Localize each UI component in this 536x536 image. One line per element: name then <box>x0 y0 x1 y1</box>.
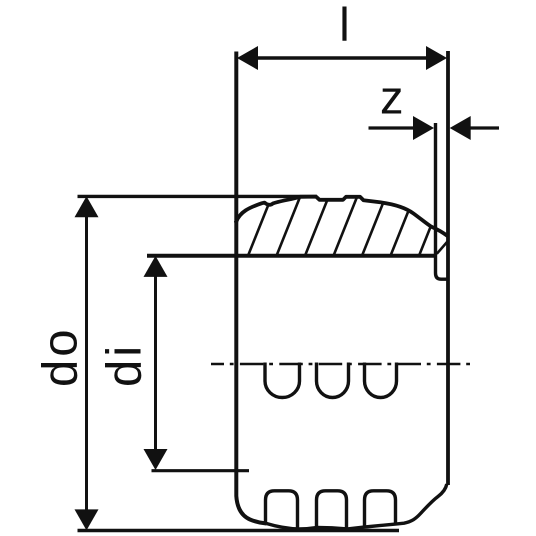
arrowhead z pointing left <box>450 116 471 140</box>
centre line (dash-dot) <box>211 363 474 366</box>
arrowhead l left <box>237 46 258 70</box>
right extension / right face <box>446 51 450 485</box>
arrowhead di up <box>144 256 168 277</box>
arrowhead l right <box>426 46 447 70</box>
U scallop 1 (internal rib) <box>265 363 300 398</box>
dimension line z left part <box>369 126 425 129</box>
dimension line z right part <box>460 126 499 129</box>
svg-text:l: l <box>339 0 349 51</box>
svg-text:do: do <box>34 326 88 387</box>
extension line do bottom (tangent to ribs) <box>78 529 400 533</box>
extension line di bottom <box>152 469 250 472</box>
U scallop 2 <box>317 363 349 398</box>
arrowhead do down <box>75 509 99 530</box>
dimension line l <box>247 56 437 59</box>
extension line do top <box>78 195 318 198</box>
left extension / outline <box>236 52 266 524</box>
arrowhead do up <box>75 196 99 217</box>
bottom rib tab 3 <box>365 491 396 528</box>
dimension line di <box>154 264 157 462</box>
top profile of fitting <box>236 197 447 236</box>
dimension line do <box>85 206 88 520</box>
svg-text:z: z <box>380 71 404 124</box>
bottom rib tab 1 <box>266 491 298 530</box>
bore line / di top extension <box>147 254 436 258</box>
z extension / socket mouth line with lip bottom <box>436 123 450 279</box>
hatch line in right bump <box>437 242 448 254</box>
bottom rib tab 2 <box>317 491 347 530</box>
valley silhouette line (bottom, between ribs) <box>267 484 447 529</box>
arrowhead z pointing right <box>413 116 434 140</box>
hatching <box>219 195 443 257</box>
svg-text:di: di <box>98 343 152 387</box>
U scallop 3 <box>365 363 397 398</box>
arrowhead di down <box>144 449 168 470</box>
